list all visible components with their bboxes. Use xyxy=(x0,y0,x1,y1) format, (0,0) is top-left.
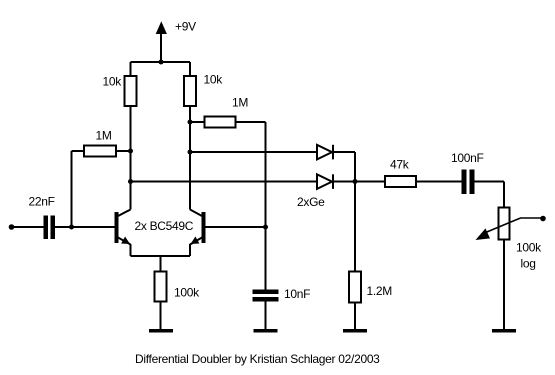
wire right base column xyxy=(265,122,267,290)
svg-text:2xGe: 2xGe xyxy=(297,195,325,209)
resistor R3 1M left body xyxy=(84,146,116,157)
node diode join xyxy=(353,179,358,184)
capacitor C2 10nF plate bottom xyxy=(253,297,279,302)
diode D1 triangle xyxy=(317,145,332,160)
transistor Q2 emitter arrow xyxy=(191,237,200,245)
ground G4 xyxy=(492,329,516,333)
capacitor C1 22nF plate right xyxy=(51,216,56,240)
wire 1M2 right lead xyxy=(236,121,266,123)
svg-text:10k: 10k xyxy=(204,73,224,87)
node 1M1 right xyxy=(128,149,133,154)
wire Q1 emitter down xyxy=(130,244,132,256)
wire 47k to cap xyxy=(416,181,462,183)
wire supply vertical xyxy=(160,34,162,62)
transistor Q2 emitter diagonal xyxy=(190,238,202,245)
wire input lead xyxy=(12,226,44,228)
wire Q2 emitter down xyxy=(189,244,191,256)
node left base junction xyxy=(69,225,74,230)
wire 10nF to ground xyxy=(265,302,267,331)
wire Q2 base right xyxy=(206,226,266,228)
resistor R1 10k left body xyxy=(125,76,137,106)
resistor R2 10k right body xyxy=(184,76,196,106)
wire 1M1 right lead xyxy=(116,150,131,152)
svg-text:10nF: 10nF xyxy=(284,287,310,301)
wire emitter tail xyxy=(160,256,162,272)
transistor Q1 collector diagonal xyxy=(118,210,131,217)
wire left column top xyxy=(130,62,132,76)
wire 1.2M to ground xyxy=(354,303,356,331)
svg-text:2x BC549C: 2x BC549C xyxy=(135,219,194,233)
node row B left xyxy=(128,179,133,184)
node 1M2 tap xyxy=(188,120,193,125)
wire 1M2 left lead xyxy=(190,121,205,123)
ground G3 xyxy=(343,329,367,333)
potentiometer VR1 wiper arrow xyxy=(476,228,491,240)
svg-text:1.2M: 1.2M xyxy=(367,284,393,298)
capacitor C2 10nF plate top xyxy=(253,290,279,295)
wire pot top lead xyxy=(503,182,505,208)
svg-text:47k: 47k xyxy=(390,158,410,172)
wire diode join vertical xyxy=(354,152,356,272)
wire row B diode to node xyxy=(333,181,356,183)
diode D2 cathode bar xyxy=(332,174,334,189)
transistor Q2 base bar xyxy=(202,212,206,243)
wire right column mid xyxy=(189,106,191,210)
potentiometer VR1 body xyxy=(499,208,510,240)
potentiometer VR1 wiper line xyxy=(485,218,543,233)
capacitor C1 22nF plate left xyxy=(44,216,49,240)
diode D1 cathode bar xyxy=(332,145,334,160)
transistor Q1 emitter arrow xyxy=(121,237,130,245)
wire pot bottom lead xyxy=(503,240,505,331)
wire left column mid xyxy=(130,106,132,210)
wire row A diode to corner xyxy=(333,151,356,153)
node right base junction xyxy=(263,225,268,230)
node pot wiper terminal xyxy=(540,216,546,222)
node row A left xyxy=(188,150,193,155)
svg-text:22nF: 22nF xyxy=(29,195,55,209)
svg-text:1M: 1M xyxy=(96,129,112,143)
wire base left xyxy=(55,226,115,228)
node supply rail xyxy=(159,60,164,65)
wire row B left xyxy=(131,181,318,183)
wire right column top xyxy=(189,62,191,76)
transistor Q1 emitter diagonal xyxy=(118,238,131,245)
supply arrow +9V xyxy=(156,21,167,34)
wire 1M1 left lead xyxy=(72,150,85,152)
svg-text:10k: 10k xyxy=(103,75,123,89)
resistor R4 1M upper body xyxy=(205,117,236,128)
wire row B node to 47k xyxy=(355,181,385,183)
svg-text:+9V: +9V xyxy=(175,20,196,34)
wire row A left xyxy=(190,151,317,153)
svg-text:100k: 100k xyxy=(174,286,200,300)
wire supply rail xyxy=(131,61,191,63)
svg-text:100k: 100k xyxy=(516,241,542,255)
wire left base column xyxy=(71,151,73,227)
wire cap to pot corner xyxy=(475,181,505,183)
node input terminal xyxy=(9,224,15,230)
resistor R5 100k body xyxy=(155,272,167,302)
transistor Q2 collector diagonal xyxy=(190,210,202,217)
resistor R7 1.2M body xyxy=(349,272,361,303)
diode D2 triangle xyxy=(317,174,332,189)
wire emitter rail xyxy=(131,255,191,257)
wire 100k to ground xyxy=(160,302,162,331)
svg-text:1M: 1M xyxy=(232,96,248,110)
svg-text:100nF: 100nF xyxy=(451,151,484,165)
ground G2 xyxy=(254,329,278,333)
svg-text:Differential Doubler by Kristi: Differential Doubler by Kristian Schlage… xyxy=(135,352,380,366)
svg-text:log: log xyxy=(521,257,536,271)
transistor Q1 base bar xyxy=(115,212,119,243)
ground G1 xyxy=(149,329,173,333)
capacitor C3 100nF plate left xyxy=(462,170,467,195)
resistor R6 47k body xyxy=(385,176,416,187)
capacitor C3 100nF plate right xyxy=(470,170,475,195)
